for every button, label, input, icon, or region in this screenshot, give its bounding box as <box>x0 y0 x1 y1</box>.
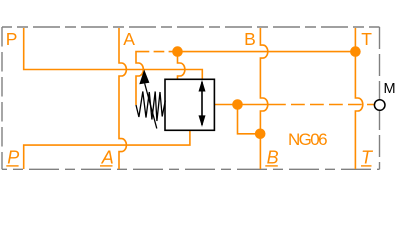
svg-text:P: P <box>7 148 19 168</box>
svg-text:T: T <box>361 29 372 49</box>
wire junction vertical to valve top with jump <box>178 52 185 80</box>
svg-text:M: M <box>384 81 396 97</box>
spring adjustment arrow <box>145 84 157 129</box>
svg-text:B: B <box>244 29 256 49</box>
svg-text:A: A <box>123 29 135 49</box>
svg-text:A: A <box>101 148 114 168</box>
svg-text:P: P <box>6 29 18 49</box>
wire pilot vertical to spring with jump <box>136 52 143 105</box>
enclosure dashed border <box>2 27 380 169</box>
valve box U1 <box>165 79 214 130</box>
junction dot at T <box>350 46 361 57</box>
wire pilot dashed segment <box>139 51 173 53</box>
svg-text:B: B <box>267 148 279 168</box>
wire valve bottom to bottom P port <box>24 130 190 169</box>
spring <box>136 92 165 122</box>
junction dot at M branch <box>232 99 243 110</box>
wire valve output to M solid part <box>214 104 272 106</box>
wire B line with jumps <box>260 28 267 169</box>
svg-text:T: T <box>361 148 374 168</box>
valve internal double arrow <box>201 82 203 125</box>
junction dot at B <box>255 129 266 140</box>
svg-text:NG06: NG06 <box>288 130 327 149</box>
wire P top port line <box>24 28 203 80</box>
wire pilot solid to T <box>178 51 356 53</box>
wire T line with jump <box>355 28 362 169</box>
junction dot pilot <box>172 46 183 57</box>
wire branch to B line <box>238 105 261 134</box>
wire valve output to M dashed part <box>272 104 374 106</box>
wire A line with jumps <box>119 28 126 169</box>
port M circle <box>374 100 385 111</box>
